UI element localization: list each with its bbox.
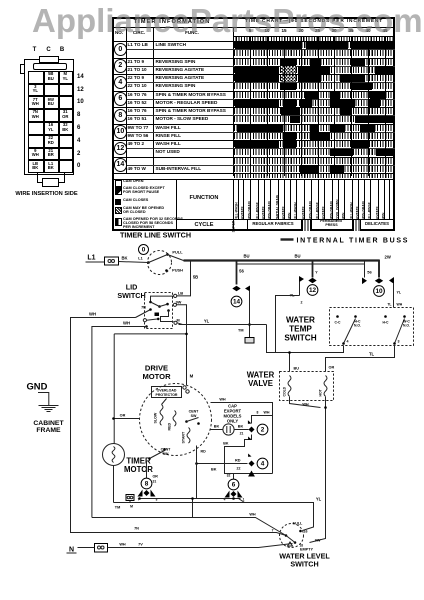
water valve xyxy=(247,371,334,401)
svg-text:CENT: CENT xyxy=(161,448,172,452)
svg-text:SLOW: SLOW xyxy=(154,412,158,423)
chart row group 8 xyxy=(112,107,395,108)
contact 2 xyxy=(247,424,268,435)
svg-text:8: 8 xyxy=(145,481,149,488)
svg-text:SWITCH: SWITCH xyxy=(117,291,145,300)
svg-text:3: 3 xyxy=(398,340,400,344)
svg-text:18: 18 xyxy=(300,544,304,548)
svg-text:TIMER LINE SWITCH: TIMER LINE SWITCH xyxy=(120,231,191,240)
ground cabinet frame xyxy=(27,381,65,435)
svg-text:PROTECTOR: PROTECTOR xyxy=(156,393,178,397)
wire TL water temp switch to hot valve xyxy=(326,346,395,372)
svg-text:YL: YL xyxy=(316,497,322,502)
internal timer buss lower wire xyxy=(237,263,365,265)
svg-text:BU: BU xyxy=(243,254,249,259)
wire contact 14 to timer motor stub xyxy=(238,291,254,344)
svg-text:FRAME: FRAME xyxy=(36,427,61,434)
chart row group 14 xyxy=(112,157,395,158)
svg-text:SW: SW xyxy=(191,414,197,418)
timer line switch xyxy=(120,231,191,275)
rail wire contacts 8 and 6 xyxy=(138,497,244,517)
wire YL water temp switch bottom rail xyxy=(179,325,344,353)
svg-text:M: M xyxy=(130,505,133,509)
connector terminal L1 xyxy=(87,255,118,266)
contact 8 xyxy=(138,461,159,502)
svg-text:22: 22 xyxy=(237,467,241,471)
wire BK motor to capacitor xyxy=(211,425,247,430)
wire contact 12 to water temp switch xyxy=(276,296,300,353)
svg-text:12: 12 xyxy=(309,287,317,294)
svg-text:56: 56 xyxy=(239,269,244,274)
svg-text:START: START xyxy=(182,431,186,444)
lid switch xyxy=(117,283,183,329)
svg-text:HOT: HOT xyxy=(319,388,323,396)
svg-text:32: 32 xyxy=(227,474,231,478)
svg-text:RED: RED xyxy=(168,423,172,431)
svg-text:WH: WH xyxy=(264,411,270,415)
wire drive motor branch to timer motor xyxy=(114,333,188,336)
water temp switch xyxy=(284,308,413,346)
wiring harness connector (wire insertion side) xyxy=(0,0,110,200)
svg-text:SW: SW xyxy=(163,452,169,456)
svg-text:14: 14 xyxy=(233,299,241,306)
svg-text:N.O.: N.O. xyxy=(403,324,410,328)
svg-text:GND: GND xyxy=(27,381,48,392)
contact 14 xyxy=(231,261,250,307)
chart row group 2 xyxy=(112,58,395,59)
wire WH lid switch to timer motor xyxy=(92,321,148,518)
wire water valve to water level switch xyxy=(290,397,327,543)
svg-text:31: 31 xyxy=(153,480,157,484)
svg-text:SWITCH: SWITCH xyxy=(284,334,316,343)
svg-text:CABINET: CABINET xyxy=(33,420,64,427)
chart row group 10 xyxy=(112,124,395,125)
svg-text:Y: Y xyxy=(315,271,318,275)
legend cam symbols xyxy=(112,179,395,180)
svg-text:INTERNAL TIMER BUSS: INTERNAL TIMER BUSS xyxy=(297,238,410,245)
wire to cold valve xyxy=(288,351,299,371)
contact 4 xyxy=(195,453,268,476)
contact box wiring xyxy=(223,435,272,474)
timer sequence chart table xyxy=(112,17,395,231)
svg-text:SWITCH: SWITCH xyxy=(290,560,318,569)
svg-text:CENT: CENT xyxy=(189,410,200,414)
wire WH drive motor to contact 2 xyxy=(211,398,273,474)
timer motor rail TM xyxy=(114,495,322,531)
svg-text:PUSH: PUSH xyxy=(172,268,183,273)
svg-text:BK: BK xyxy=(211,468,217,472)
svg-text:BU: BU xyxy=(294,254,300,259)
svg-text:7N: 7N xyxy=(134,527,139,531)
chart row group 6 xyxy=(112,91,395,92)
svg-text:BK: BK xyxy=(223,442,229,446)
svg-text:56: 56 xyxy=(367,270,372,275)
svg-text:WH: WH xyxy=(397,303,403,307)
svg-text:VALVE: VALVE xyxy=(248,379,273,388)
svg-text:WATER: WATER xyxy=(286,316,315,325)
svg-text:N: N xyxy=(69,547,74,554)
svg-text:OR: OR xyxy=(329,366,335,370)
wire contact 10 to water temp switch xyxy=(387,277,402,308)
contact 12 xyxy=(290,261,319,305)
svg-text:16: 16 xyxy=(304,530,308,534)
chart row group 4 xyxy=(112,74,395,75)
internal timer buss legend xyxy=(281,238,410,245)
svg-text:7V: 7V xyxy=(138,543,143,547)
svg-text:2W: 2W xyxy=(385,255,391,260)
svg-text:4: 4 xyxy=(261,461,265,468)
svg-text:BU: BU xyxy=(294,367,300,371)
contact 6 xyxy=(224,474,245,502)
contact 10 xyxy=(362,260,384,297)
svg-text:WH: WH xyxy=(249,513,256,517)
svg-text:BK: BK xyxy=(238,425,244,429)
internal timer buss wire xyxy=(184,254,391,265)
svg-text:TM: TM xyxy=(238,329,243,333)
svg-text:10: 10 xyxy=(375,288,383,295)
svg-text:21: 21 xyxy=(240,432,244,436)
svg-text:9W: 9W xyxy=(315,539,321,543)
timer motor xyxy=(103,334,154,503)
svg-text:2: 2 xyxy=(261,427,265,434)
chart row group 0 xyxy=(112,41,395,42)
svg-text:WH: WH xyxy=(219,398,226,402)
svg-text:6: 6 xyxy=(232,482,236,489)
svg-text:WH: WH xyxy=(119,543,126,547)
svg-text:MOTOR: MOTOR xyxy=(142,372,171,381)
svg-text:WH: WH xyxy=(123,321,130,326)
svg-text:L1: L1 xyxy=(87,255,95,262)
svg-text:7: 7 xyxy=(272,529,274,533)
wire BK L1 to timer line switch xyxy=(86,256,149,263)
svg-text:M: M xyxy=(190,374,194,379)
svg-text:RD: RD xyxy=(201,450,207,454)
svg-text:LB: LB xyxy=(178,291,183,296)
svg-text:N.O.: N.O. xyxy=(354,324,361,328)
wire WH lid switch outer loop xyxy=(71,306,285,536)
svg-text:TL: TL xyxy=(387,303,391,307)
svg-text:WH: WH xyxy=(89,312,96,317)
svg-text:ONLY: ONLY xyxy=(227,419,238,424)
svg-text:FULL: FULL xyxy=(293,522,303,526)
capacitor (export models) xyxy=(223,404,244,436)
svg-text:9W: 9W xyxy=(176,301,182,305)
svg-text:7N: 7N xyxy=(141,306,146,310)
svg-text:OR: OR xyxy=(120,414,126,418)
svg-text:H-C: H-C xyxy=(382,321,389,325)
svg-text:PULL: PULL xyxy=(172,250,183,255)
svg-text:YL: YL xyxy=(397,291,402,295)
svg-text:OVERLOAD: OVERLOAD xyxy=(157,389,177,393)
svg-text:YL: YL xyxy=(204,319,210,324)
svg-text:C-C: C-C xyxy=(334,321,341,325)
watermark xyxy=(32,4,423,37)
wire 9W lid switch to drive motor xyxy=(176,301,194,386)
svg-text:BK: BK xyxy=(214,425,220,429)
svg-text:L1: L1 xyxy=(138,257,142,261)
svg-text:M: M xyxy=(177,319,180,323)
svg-text:BK: BK xyxy=(121,256,127,261)
svg-text:TEMP: TEMP xyxy=(289,325,312,334)
wire OR drive motor to timer motor xyxy=(114,414,140,419)
wire YL lid switch M terminal xyxy=(177,319,267,325)
svg-text:OR: OR xyxy=(153,475,159,479)
water level switch xyxy=(279,522,330,569)
rail wire WH to water level switch xyxy=(92,513,286,536)
svg-text:WH: WH xyxy=(302,403,309,407)
svg-text:TM: TM xyxy=(115,506,120,510)
svg-text:2: 2 xyxy=(301,301,303,305)
wire motor start winding down xyxy=(197,446,231,499)
svg-text:TL: TL xyxy=(369,352,375,357)
chart row group 12 xyxy=(112,140,395,141)
svg-text:MOTOR: MOTOR xyxy=(124,465,153,474)
neutral wire N xyxy=(67,543,293,554)
wire 5B buss to lid switch xyxy=(177,261,198,296)
svg-text:COLD: COLD xyxy=(283,386,287,396)
svg-text:4: 4 xyxy=(347,340,349,344)
svg-text:8: 8 xyxy=(257,411,259,415)
svg-text:5B: 5B xyxy=(193,275,198,280)
connector pin cells xyxy=(28,71,45,84)
svg-text:0: 0 xyxy=(142,247,146,254)
drive motor xyxy=(140,364,212,460)
svg-text:RD: RD xyxy=(235,459,241,463)
